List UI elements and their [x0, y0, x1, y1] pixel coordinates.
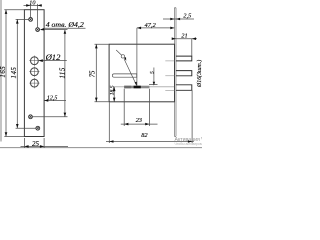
dimension 165 — [4, 10, 24, 137]
bolt hole C1 — [29, 56, 39, 66]
bolt 2 side view — [165, 71, 192, 76]
svg-text:4 отв. Ø4,2: 4 отв. Ø4,2 — [46, 20, 84, 29]
svg-text:18,5: 18,5 — [109, 85, 115, 95]
svg-text:10: 10 — [29, 0, 36, 6]
bolt axis extension line — [113, 86, 174, 88]
dimension 82 — [106, 90, 194, 143]
svg-text:12,5: 12,5 — [47, 95, 58, 101]
dimension 23 — [121, 89, 158, 126]
window left border — [0, 0, 2, 142]
window bottom divider line — [0, 147, 202, 149]
screw hole S3 — [29, 115, 33, 119]
dimension 115 — [33, 30, 68, 117]
dimension 10 — [24, 4, 42, 28]
svg-text:21: 21 — [181, 32, 187, 39]
faceplate front view outline — [24, 10, 44, 137]
svg-text:Чтобы активировать Windows: Чтобы активировать Windows — [175, 142, 203, 146]
svg-text:75: 75 — [89, 70, 96, 77]
svg-text:Ø16(3шт.): Ø16(3шт.) — [196, 60, 202, 88]
key lever diagonal with pivot circle — [116, 50, 136, 85]
svg-text:165: 165 — [0, 66, 7, 78]
svg-text:115: 115 — [59, 67, 66, 78]
dimension 5 — [149, 68, 158, 85]
svg-text:2,5: 2,5 — [183, 12, 191, 19]
bolt hole C2 — [29, 67, 39, 77]
dimension 25 — [21, 138, 69, 148]
dimension 75 — [95, 44, 109, 102]
svg-text:23: 23 — [136, 117, 142, 124]
dimension 145 — [16, 19, 36, 128]
svg-text:25: 25 — [32, 140, 40, 148]
screw hole S4 — [36, 126, 40, 130]
dimension 21 — [173, 39, 198, 56]
dimension 12,5 — [44, 100, 66, 102]
bolt hole C3 — [29, 78, 39, 88]
dimension 18,5 — [113, 87, 115, 102]
cylinder centerline — [136, 28, 138, 88]
keyhole slot (rounded left) — [112, 74, 136, 77]
bolt 1 side view — [165, 56, 192, 61]
screw hole S1 — [29, 18, 33, 22]
label d12 — [39, 60, 67, 62]
dimension 47,2 — [137, 27, 175, 29]
bolt 3 side view — [165, 85, 192, 91]
lock body side view outline — [109, 44, 174, 102]
svg-text:47,2: 47,2 — [145, 22, 157, 29]
svg-text:82: 82 — [141, 132, 148, 139]
svg-text:Ø12: Ø12 — [45, 52, 62, 62]
dimension 2,5 — [163, 18, 194, 20]
faceplate side view strip — [174, 8, 176, 137]
label 4 holes d4.2 — [41, 28, 86, 29]
bolt tail bar inside body — [124, 86, 149, 89]
svg-text:145: 145 — [11, 67, 18, 79]
screw hole S2 — [36, 28, 40, 32]
